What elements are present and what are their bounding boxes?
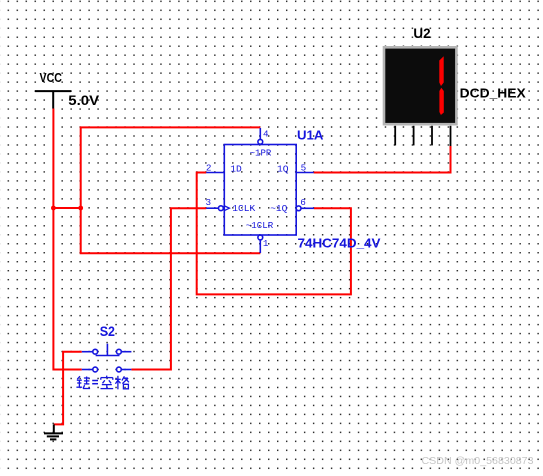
svg-text:~1Q: ~1Q (270, 203, 287, 214)
svg-text:CSDN @m0_56830873: CSDN @m0_56830873 (422, 456, 534, 467)
svg-text:~1CLR: ~1CLR (246, 220, 274, 231)
svg-text:1Q: 1Q (277, 163, 289, 174)
svg-text:~1PR: ~1PR (250, 147, 272, 158)
svg-text:1CLK: 1CLK (232, 203, 255, 214)
svg-text:4: 4 (263, 128, 269, 139)
svg-text:1: 1 (263, 238, 269, 249)
svg-text:DCD_HEX: DCD_HEX (460, 86, 526, 101)
svg-text:1D: 1D (230, 163, 242, 174)
svg-text:74HC74D_4V: 74HC74D_4V (298, 236, 381, 251)
svg-text:5.0V: 5.0V (68, 92, 99, 108)
svg-text:S2: S2 (100, 324, 115, 339)
svg-text:2: 2 (206, 162, 212, 173)
svg-text:U1A: U1A (297, 128, 324, 143)
svg-text:VCC: VCC (40, 70, 63, 85)
svg-text:U2: U2 (413, 25, 430, 41)
svg-text:5: 5 (301, 162, 307, 173)
svg-text:3: 3 (206, 197, 212, 208)
svg-text:6: 6 (300, 197, 306, 208)
